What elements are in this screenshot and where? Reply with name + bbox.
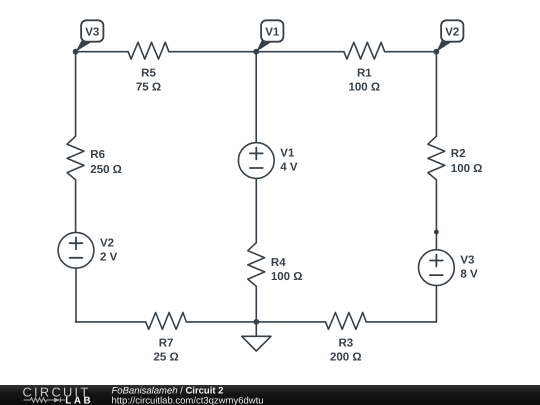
resistor R4 [248,243,265,287]
svg-text:V2: V2 [445,26,459,38]
svg-text:R5: R5 [141,67,156,79]
svg-text:8 V: 8 V [460,269,478,281]
node flag V3 [76,20,104,51]
ground stub wire [255,322,257,336]
wire V1 node to R1 [256,51,344,53]
wire source V2 to bottom-left corner [75,268,77,322]
svg-text:V1: V1 [280,148,295,160]
svg-text:V3: V3 [460,255,474,267]
logo zigzag and diode glyph [24,398,66,403]
node A dot (V3 top-left) [73,49,79,55]
svg-text:R2: R2 [451,148,466,160]
V1 plus sign [250,148,263,160]
svg-text:R7: R7 [159,338,174,350]
wire source V1 to R4 [255,178,257,242]
ground symbol triangle [242,336,271,351]
resistor R6 [67,136,84,180]
svg-text:R1: R1 [357,67,372,79]
svg-text:100 Ω: 100 Ω [451,163,483,175]
svg-text:4 V: 4 V [280,162,298,174]
junction dot right branch [434,230,439,235]
wire middle top (V1 node to source V1) [255,52,257,143]
wire ground node to R3 [256,321,325,323]
svg-text:R6: R6 [90,149,105,161]
wire R5 to V1 node [169,51,256,53]
wire left top (V3 node down to R6) [75,52,77,137]
svg-text:V3: V3 [85,26,99,38]
svg-text:100 Ω: 100 Ω [271,271,303,283]
wire right top (V2 node to R2) [435,52,437,137]
svg-text:V2: V2 [100,237,114,249]
wire junction to source V3 [435,232,437,250]
resistor R7 [146,313,187,330]
svg-text:250 Ω: 250 Ω [90,164,122,176]
voltage source V1 circle [238,143,274,179]
node B dot (V1 top-middle) [253,49,259,55]
resistor R3 [326,313,367,330]
svg-text:25 Ω: 25 Ω [153,352,178,364]
svg-text:R4: R4 [271,257,286,269]
svg-text:V1: V1 [265,26,280,38]
svg-text:100 Ω: 100 Ω [348,81,380,93]
wire R1 to V2 node [385,51,437,53]
wire R3 to bottom-right corner [366,321,436,323]
voltage source V3 circle [419,250,455,286]
svg-text:http://circuitlab.com/ct3qzwmy: http://circuitlab.com/ct3qzwmy6dwtu [112,396,264,405]
wire R6 to source V2 [75,180,77,233]
V1 minus sign [250,167,263,169]
wire source V3 to bottom-right corner [435,286,437,322]
resistor R1 [344,42,385,59]
V3 plus sign [430,255,443,267]
wire R4 to ground node [255,286,257,322]
resistor R5 [128,42,169,59]
svg-text:200 Ω: 200 Ω [330,352,362,364]
V2 plus sign [70,237,83,249]
wire bottom-left to R7 [76,321,146,323]
svg-text:R3: R3 [338,338,353,350]
wire R2 to junction node [435,180,437,232]
resistor R2 [428,136,445,180]
footer bar [0,385,540,405]
wire top-left (V3 node to R5) [76,51,129,53]
ground junction dot [253,319,259,325]
V2 minus sign [70,257,83,259]
svg-text:2 V: 2 V [100,251,118,263]
voltage source V2 circle [58,232,94,268]
node flag V2 [436,20,463,51]
svg-text:LAB: LAB [65,396,93,405]
node flag V1 [256,20,283,51]
wire R7 to ground node [186,321,256,323]
svg-text:75 Ω: 75 Ω [136,81,161,93]
V3 minus sign [430,274,443,276]
node C dot (V2 top-right) [434,49,440,55]
